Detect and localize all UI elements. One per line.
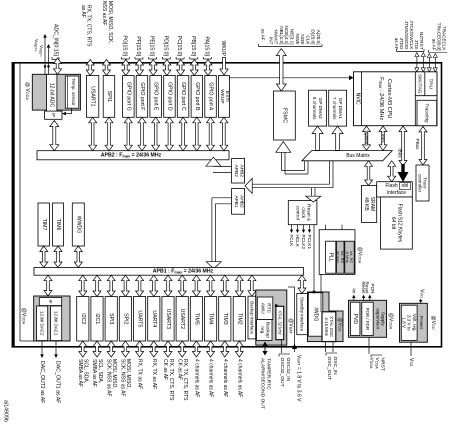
svg-text:PCLK1: PCLK1 <box>307 235 312 250</box>
DMA1 arrow <box>332 126 343 150</box>
svg-text:PVD: PVD <box>352 314 358 325</box>
svg-text:PE[15:0]: PE[15:0] <box>149 36 155 56</box>
12-bit DAC1 box <box>51 306 62 341</box>
svg-text:FSMC: FSMC <box>281 108 287 123</box>
svg-text:TIM5: TIM5 <box>193 313 199 325</box>
svg-text:as AF: as AF <box>432 39 437 51</box>
svg-text:Fmax : 24/36 MHz: Fmax : 24/36 MHz <box>378 77 384 120</box>
svg-text:DAC_OUT2 as AF: DAC_OUT2 as AF <box>39 361 45 403</box>
svg-text:PLL: PLL <box>328 253 334 262</box>
svg-text:NCE[4:1]: NCE[4:1] <box>284 25 289 44</box>
supply supervisor group <box>349 300 387 337</box>
WWDG box <box>72 203 84 246</box>
svg-text:System: System <box>364 130 369 145</box>
I2C2 box <box>77 297 89 342</box>
EXTI to NVIC wire <box>229 77 349 79</box>
svg-text:OSC_IN: OSC_IN <box>332 357 338 376</box>
bus matrix to FSMC wire <box>304 161 306 171</box>
svg-text:NSS as AF: NSS as AF <box>101 1 107 25</box>
SPI2 to APB1 arrow <box>121 275 129 296</box>
svg-text:GPIO port B: GPIO port B <box>194 82 200 111</box>
Backup interface to APB1 arrow <box>248 275 256 296</box>
svg-text:A[25:0]: A[25:0] <box>316 30 321 45</box>
Standby interface to APB1 arrow <box>298 275 306 293</box>
Trace controller box <box>416 165 429 201</box>
svg-text:12-bit ADC: 12-bit ADC <box>49 83 55 108</box>
svg-text:Cortex-M3 CPU: Cortex-M3 CPU <box>386 79 392 118</box>
IWDG group gray box <box>308 292 330 342</box>
svg-text:HCLK: HCLK <box>295 235 300 248</box>
svg-text:Backup: Backup <box>265 322 271 338</box>
svg-text:AHB2: AHB2 <box>238 195 244 208</box>
SRAM box <box>361 186 376 223</box>
svg-text:SCK, NSS as AF: SCK, NSS as AF <box>120 359 126 397</box>
TIM2 to APB1 arrow <box>235 275 243 296</box>
svg-text:RX, TX as AF: RX, TX as AF <box>151 359 157 389</box>
VREF junction dots <box>44 65 46 67</box>
svg-text:Flash: Flash <box>385 183 397 189</box>
temp sensor to IF wire <box>71 108 73 113</box>
svg-text:USART1: USART1 <box>90 86 96 106</box>
svg-text:SW/JTAG: SW/JTAG <box>418 74 423 94</box>
USART2 box <box>176 297 188 342</box>
svg-text:7 channels: 7 channels <box>332 97 337 120</box>
svg-text:supervisor: supervisor <box>375 308 380 329</box>
USART2 bottom pin arrow <box>178 341 186 357</box>
svg-text:TIM7: TIM7 <box>41 219 47 231</box>
svg-text:Power: Power <box>419 316 424 330</box>
svg-text:4 channels as AF: 4 channels as AF <box>208 359 214 397</box>
I2C1 box <box>91 297 103 342</box>
bus matrix to bridges wire <box>329 161 331 184</box>
clock output PCLK2 <box>303 225 305 231</box>
svg-text:TIM4: TIM4 <box>208 313 214 325</box>
svg-text:UART5: UART5 <box>137 310 143 327</box>
svg-text:40 kHz: 40 kHz <box>336 251 341 263</box>
bridge to APB1 bar connector <box>212 197 232 199</box>
svg-text:TPIU: TPIU <box>428 78 433 88</box>
VSS wire <box>410 342 412 356</box>
svg-text:EXTI: EXTI <box>224 91 230 102</box>
TAMPER-RTC arrow <box>264 345 266 352</box>
GPIO port A box <box>205 76 217 118</box>
svg-text:OSC32_IN: OSC32_IN <box>285 358 291 382</box>
POR Reset arrow and label <box>369 297 371 300</box>
GPIO port A to APB2 arrow <box>207 117 215 150</box>
GPIO port B to APB2 arrow <box>193 117 201 150</box>
svg-text:GPIO port G: GPIO port G <box>125 82 131 111</box>
I2C2 bottom pin arrow <box>79 341 87 357</box>
svg-text:interface: interface <box>387 190 406 196</box>
svg-text:TIM6: TIM6 <box>55 219 61 231</box>
svg-text:4 channels as AF: 4 channels as AF <box>222 359 228 397</box>
I2C2 to APB1 arrow <box>79 275 87 296</box>
GPIO port E to APB2 arrow <box>152 117 160 150</box>
svg-text:INT: INT <box>268 37 273 45</box>
Int RC 8MHz box <box>345 241 354 273</box>
TIM2 box <box>233 297 245 342</box>
svg-text:GPIO port C: GPIO port C <box>180 82 186 111</box>
DAC_OUT2 arrow and label <box>41 341 43 356</box>
SWJTAG arrows <box>416 54 418 71</box>
svg-text:D[15:0]: D[15:0] <box>311 29 316 44</box>
POR PDR box <box>362 302 373 335</box>
svg-text:AWU: AWU <box>260 303 266 315</box>
I2C1 bottom pin arrow <box>93 341 101 357</box>
Backup interface box <box>248 296 256 339</box>
GPIO port D box <box>164 76 176 118</box>
pin label VREF- <box>48 47 50 75</box>
svg-text:1.8 V: 1.8 V <box>401 318 406 329</box>
GPIO port A top pin arrow <box>204 60 212 76</box>
svg-text:I2C2: I2C2 <box>80 313 86 324</box>
svg-text:Standby interface: Standby interface <box>300 297 305 332</box>
GPIO port C box <box>177 76 189 118</box>
svg-text:RTC: RTC <box>265 303 271 313</box>
svg-text:Int: Int <box>351 288 356 294</box>
SW/JTAG box <box>424 72 426 96</box>
svg-text:NVIC: NVIC <box>355 93 361 105</box>
UART4 to APB1 arrow <box>150 275 158 296</box>
svg-text:DBus: DBus <box>381 131 386 143</box>
svg-text:APB1: APB1 <box>233 195 239 208</box>
svg-text:48 KB: 48 KB <box>363 197 369 211</box>
svg-text:XTAL 32 kHz: XTAL 32 kHz <box>277 310 282 334</box>
DBus arrow <box>379 126 387 150</box>
GPIO port F box <box>136 76 148 118</box>
svg-text:WWDG: WWDG <box>75 216 81 234</box>
AHB2APB1 bridge <box>232 189 245 215</box>
PLL box <box>326 241 336 273</box>
DAC to APB1 arrow <box>44 275 52 296</box>
IWDG box <box>308 293 323 337</box>
DAC IF box <box>39 298 61 306</box>
UART4 bottom pin arrow <box>150 341 158 357</box>
TIM7 to APB1 arrow <box>40 246 48 268</box>
svg-text:NOE: NOE <box>300 34 305 44</box>
clock management group box <box>319 230 355 275</box>
svg-text:APB2 : Fmax = 24/36 MHz: APB2 : Fmax = 24/36 MHz <box>101 153 162 159</box>
svg-text:IBus: IBus <box>398 148 403 158</box>
GPIO port C top pin arrow <box>177 60 185 76</box>
APB2 bus bar <box>37 151 229 160</box>
svg-text:CLK: CLK <box>305 35 310 45</box>
svg-text:SMBA as AF: SMBA as AF <box>91 359 97 387</box>
svg-text:FCLK: FCLK <box>289 235 294 248</box>
GPIO port G to APB2 arrow <box>124 117 132 150</box>
svg-text:WKUP: WKUP <box>219 89 225 103</box>
svg-text:UART4: UART4 <box>151 310 157 327</box>
matrix to flash interface arrow <box>388 161 396 182</box>
temp sensor box <box>65 76 79 108</box>
svg-text:Trace: Trace <box>423 177 428 189</box>
svg-text:GPIO port D: GPIO port D <box>166 82 172 111</box>
RCC to IWDG wire <box>313 225 315 292</box>
TPIU arrows <box>428 55 430 71</box>
svg-text:4 channels as AF: 4 channels as AF <box>193 359 199 397</box>
svg-text:4-16 MHz: 4-16 MHz <box>324 317 329 336</box>
OSC_IN OSC_OUT wires <box>325 342 327 352</box>
GPIO port D to APB2 arrow <box>165 117 173 150</box>
svg-text:12-bit DAC1: 12-bit DAC1 <box>54 311 59 336</box>
GP DMA2 box <box>309 90 327 126</box>
TIM4 to APB1 arrow <box>207 275 215 296</box>
svg-text:NWE: NWE <box>295 34 300 45</box>
Flash interface box <box>377 182 413 197</box>
svg-text:Bus Matrix: Bus Matrix <box>346 153 370 159</box>
svg-text:ai14909b: ai14909b <box>3 400 9 422</box>
svg-text:NBL[1:0]: NBL[1:0] <box>279 26 284 44</box>
USART3 to APB1 arrow <box>164 275 172 296</box>
SPI2 bottom pin arrow <box>121 341 129 357</box>
svg-text:USART2: USART2 <box>179 309 185 329</box>
svg-text:PC[15:0]: PC[15:0] <box>176 36 182 57</box>
svg-text:IF: IF <box>51 113 56 117</box>
svg-text:PA[15:0]: PA[15:0] <box>204 36 210 56</box>
GPIO port F to APB2 arrow <box>138 117 146 150</box>
VBAT wire and arrow <box>294 287 296 345</box>
svg-text:CK as AF: CK as AF <box>176 359 182 380</box>
TIM6 to APB1 arrow <box>54 246 62 268</box>
svg-text:VREF-: VREF- <box>38 45 44 58</box>
clock output FCLK <box>291 225 293 231</box>
SRAM to matrix arrow <box>365 161 373 186</box>
svg-text:DAC_OUT1 as AF: DAC_OUT1 as AF <box>55 361 61 403</box>
TIM3 to APB1 arrow <box>221 275 229 296</box>
GPIO port B box <box>191 76 203 118</box>
TIM3 box <box>219 297 231 342</box>
backup domain group box <box>256 290 287 345</box>
svg-text:as AF: as AF <box>261 29 266 41</box>
TIM5 bottom pin arrow <box>192 341 200 357</box>
GPIO port C to APB2 arrow <box>179 117 187 150</box>
svg-text:SPI2: SPI2 <box>122 313 128 324</box>
SPI2 box <box>119 297 131 342</box>
GPIO port E box <box>150 76 162 118</box>
svg-text:IF: IF <box>48 299 53 303</box>
svg-text:SCK, NSS as AF: SCK, NSS as AF <box>105 359 111 397</box>
svg-text:GPIO port E: GPIO port E <box>153 82 159 111</box>
APB1 bus bar <box>34 268 303 276</box>
svg-text:I2C1: I2C1 <box>94 313 100 324</box>
WWDG to APB1 arrow <box>74 246 82 268</box>
svg-text:PBus: PBus <box>415 139 420 151</box>
12-bit ADC box <box>47 74 57 118</box>
TIM3 bottom pin arrow <box>221 341 229 357</box>
svg-text:GPIO port F: GPIO port F <box>139 82 145 110</box>
GPIO port G box <box>123 76 135 118</box>
svg-text:control: control <box>295 205 301 219</box>
svg-text:PD[15:0]: PD[15:0] <box>162 36 168 57</box>
Backup reg box <box>257 320 273 341</box>
DAC_OUT1 arrow and label <box>55 341 57 356</box>
I2C1 to APB1 arrow <box>93 275 101 296</box>
svg-text:OSC_OUT: OSC_OUT <box>326 357 332 381</box>
Trace/trig box <box>417 100 437 125</box>
TIM2 bottom pin arrow <box>235 341 243 357</box>
svg-text:PG[15:0]: PG[15:0] <box>121 36 127 57</box>
svg-text:4 channels as AF: 4 channels as AF <box>236 359 242 397</box>
SPI1 box <box>103 76 115 118</box>
GP DMA1 box <box>329 90 347 126</box>
svg-text:SMBA as AF: SMBA as AF <box>77 359 83 387</box>
VDDA supply wire <box>19 64 21 342</box>
TIM5 box <box>190 297 202 342</box>
DAC group box <box>34 296 70 341</box>
svg-text:Reset &: Reset & <box>306 204 312 222</box>
OSC32 wires <box>281 340 283 353</box>
svg-text:64 bit: 64 bit <box>390 217 396 230</box>
svg-text:PCLK2: PCLK2 <box>301 235 306 250</box>
svg-text:VDDA: VDDA <box>374 358 380 370</box>
svg-text:CK as AF: CK as AF <box>162 359 168 380</box>
TIM7 box <box>38 203 50 246</box>
Reset and clock control RCC box <box>288 201 317 225</box>
USART1 to APB2 arrow <box>89 117 97 150</box>
svg-text:NRST: NRST <box>379 358 385 371</box>
System bus arrow <box>363 126 371 150</box>
svg-text:VSSA: VSSA <box>369 358 375 369</box>
GPIO port F top pin arrow <box>136 60 144 76</box>
EXTI to APB2 arrow <box>220 117 228 150</box>
svg-text:RX, TX as AF: RX, TX as AF <box>137 359 143 389</box>
IBus arrow <box>399 126 407 166</box>
svg-text:Reset: Reset <box>365 281 370 294</box>
svg-text:Temp. sensor: Temp. sensor <box>71 78 76 106</box>
svg-text:SRAM: SRAM <box>369 197 375 211</box>
XTAL 32kHz box <box>276 306 284 339</box>
svg-text:ADC_IN[0:15]: ADC_IN[0:15] <box>53 24 59 57</box>
USART3 bottom pin arrow <box>164 341 172 357</box>
SPI3 bottom pin arrow <box>107 341 115 357</box>
USART1 box <box>87 76 99 118</box>
UART4 box <box>148 297 160 342</box>
clock output HCLK <box>297 225 299 231</box>
svg-text:GP DMA1: GP DMA1 <box>338 98 343 119</box>
PBus arrow <box>419 126 427 165</box>
USART3 box <box>162 297 174 342</box>
WKUP arrow <box>220 58 228 76</box>
power group box <box>400 303 428 342</box>
NVIC <box>361 72 363 126</box>
svg-text:3.3 V to: 3.3 V to <box>407 315 412 331</box>
svg-text:obl: obl <box>402 183 409 189</box>
svg-text:AHB2: AHB2 <box>238 165 244 178</box>
GPIO port B top pin arrow <box>190 60 198 76</box>
bridge to APB2 bar connector <box>213 165 232 167</box>
svg-text:GPIO port A: GPIO port A <box>208 82 214 111</box>
svg-text:SPI3: SPI3 <box>108 313 114 324</box>
ADC IF box <box>45 111 62 119</box>
CPU cluster outer box <box>354 72 438 126</box>
junction dot <box>275 304 278 307</box>
svg-text:USART3: USART3 <box>165 309 171 329</box>
svg-text:WKUP: WKUP <box>220 40 226 56</box>
AHB2APB2 bridge <box>232 159 245 184</box>
Int arrow and label <box>353 297 355 300</box>
svg-text:12-bit DAC2: 12-bit DAC2 <box>40 311 45 336</box>
svg-text:APB2: APB2 <box>233 165 239 178</box>
svg-text:as AF: as AF <box>394 38 399 50</box>
GPIO port G top pin arrow <box>122 60 130 76</box>
svg-text:5 channels: 5 channels <box>312 97 317 120</box>
bus matrix <box>302 151 392 161</box>
USART1 top pin arrow <box>86 60 94 76</box>
ADC to APB2 arrow <box>50 121 59 151</box>
Reset arrow and label <box>363 297 365 300</box>
svg-text:controller: controller <box>417 174 422 193</box>
svg-text:NE[3:1]: NE[3:1] <box>290 29 295 45</box>
svg-text:reg: reg <box>259 326 265 333</box>
SPI3 box <box>105 297 117 342</box>
clock output PCLK1 <box>309 225 311 231</box>
voltage regulator box <box>401 305 417 340</box>
svg-text:as AF: as AF <box>80 5 86 18</box>
Standby interface box <box>297 294 308 335</box>
PVD box <box>350 302 360 335</box>
svg-text:IWDG: IWDG <box>313 307 319 321</box>
svg-text:GP DMA2: GP DMA2 <box>318 98 323 119</box>
svg-text:Volt. reg.: Volt. reg. <box>412 314 417 332</box>
svg-text:Trace/trig: Trace/trig <box>424 103 429 123</box>
svg-text:SPI1: SPI1 <box>106 91 112 102</box>
clock to XTAL wire <box>320 274 322 311</box>
pin label VREF+ <box>44 37 46 75</box>
12-bit DAC2 box <box>37 306 48 341</box>
NRST VDDA VSSA wire <box>368 337 370 354</box>
bus matrix to RCC wire <box>311 188 313 196</box>
svg-text:NWAIT: NWAIT <box>274 30 279 45</box>
GPIO port E top pin arrow <box>149 60 157 76</box>
ADC group box <box>32 74 80 110</box>
svg-text:PF[15:0]: PF[15:0] <box>135 36 141 56</box>
svg-text:POR / PDR: POR / PDR <box>365 308 370 330</box>
UART5 box <box>134 297 146 342</box>
svg-text:OSC32_OUT: OSC32_OUT <box>279 358 285 387</box>
RTC AWU box <box>257 297 273 320</box>
svg-text:Flash 512 Kbytes: Flash 512 Kbytes <box>397 204 403 243</box>
TIM4 box <box>205 297 217 342</box>
DMA2 arrow <box>312 126 323 150</box>
SPI1 to APB2 arrow <box>105 117 113 150</box>
Cortex-M3 CPU <box>414 72 416 126</box>
USART2 to APB1 arrow <box>178 275 186 296</box>
ADC_IN top arrow <box>54 58 62 74</box>
XTAL OSC 4-16 MHz box <box>322 312 336 342</box>
EXTI WKUP box <box>218 76 229 118</box>
SPI3 to APB1 arrow <box>107 275 115 296</box>
UART5 to APB1 arrow <box>136 275 144 296</box>
TIM6 box <box>53 203 64 246</box>
TIM4 bottom pin arrow <box>207 341 215 357</box>
FSMC box <box>274 91 296 140</box>
svg-text:8 MHz: 8 MHz <box>345 252 350 263</box>
svg-text:PB[15:0]: PB[15:0] <box>190 36 196 56</box>
GPIO port D top pin arrow <box>163 60 171 76</box>
RCC to clock wires <box>325 225 327 230</box>
chip boundary frame <box>13 63 442 347</box>
SPI1 top pin arrow <box>103 60 111 76</box>
svg-text:Backup interface: Backup interface <box>249 301 254 334</box>
Int RC 40kHz box <box>337 241 344 273</box>
svg-text:TIM2: TIM2 <box>236 313 242 325</box>
FSMC top arrow <box>276 49 286 91</box>
svg-text:ALARM/SECOND OUT: ALARM/SECOND OUT <box>260 358 266 409</box>
svg-text:clock: clock <box>300 207 306 219</box>
TIM5 to APB1 arrow <box>192 275 200 296</box>
svg-text:APB1 : Fmax = 24/36 MHz: APB1 : Fmax = 24/36 MHz <box>153 269 214 275</box>
UART5 bottom pin arrow <box>136 341 144 357</box>
